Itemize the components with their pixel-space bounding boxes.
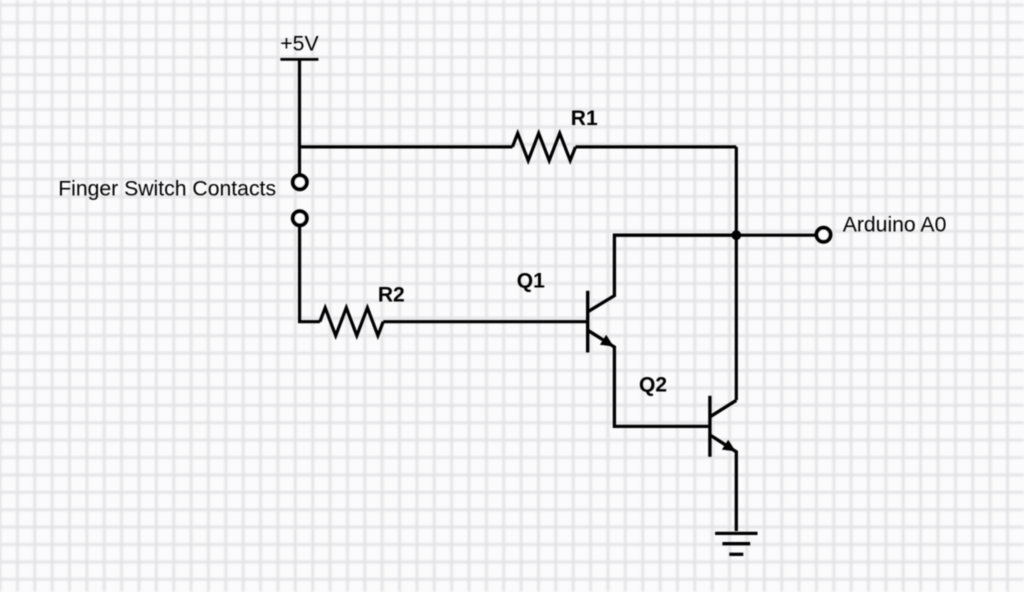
transistor Q1 collector [589,235,737,311]
resistor R1 [512,133,575,160]
transistor Q2 collector [711,400,737,416]
wire lower contact down to R2 [300,227,320,322]
power +5V symbol bar [280,58,318,61]
transistor Q1 emitter [589,331,709,427]
transistor Q2 emitter [711,436,737,532]
wire junction to Arduino A0 terminal [736,234,815,237]
transistor Q1 base bar [586,291,589,353]
svg-text:+5V: +5V [280,33,319,56]
wire +5V to switch top contact [298,59,301,173]
transistor Q2 emitter arrow [722,440,736,452]
wire R1 right to vertical rail [576,145,737,148]
switch contact lower circle [293,211,307,225]
ground bar 3 [729,553,743,556]
svg-text:Q2: Q2 [639,374,667,397]
node junction dot [731,230,741,240]
ground bar 2 [722,542,750,545]
wire vertical rail (R1 to Q2 collector) [735,147,738,400]
svg-text:Arduino A0: Arduino A0 [843,214,947,237]
wire +5V rail to R1 left [300,145,513,148]
svg-text:Q1: Q1 [517,269,545,292]
svg-text:R1: R1 [571,107,598,130]
ground bar 1 [715,532,757,535]
resistor R2 [320,308,383,336]
transistor Q1 emitter arrow [600,335,614,347]
terminal circle Arduino A0 [817,228,831,242]
switch contact upper circle [293,175,307,189]
svg-text:R2: R2 [378,283,405,306]
transistor Q2 base bar [708,396,711,457]
wire R2 to Q1 base [383,320,586,323]
svg-text:Finger Switch Contacts: Finger Switch Contacts [58,177,276,200]
